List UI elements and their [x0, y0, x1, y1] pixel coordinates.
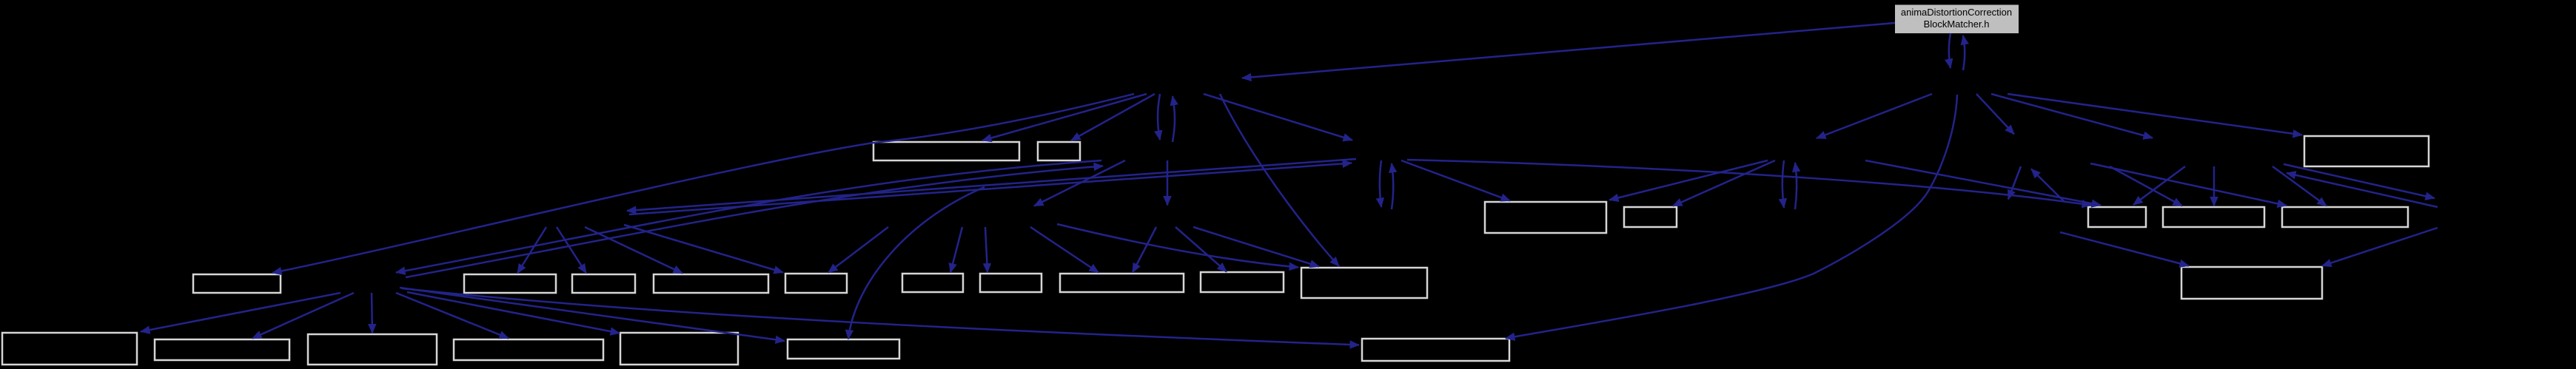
edge hub8 to G: [2090, 163, 2287, 206]
edge hubL3 to Y (curve): [848, 187, 985, 339]
edge hub3 to hub6: [1380, 160, 1381, 207]
node J3: [572, 274, 635, 293]
node J: [654, 274, 768, 293]
svg-text:BlockMatcher.h: BlockMatcher.h: [1924, 18, 1990, 30]
edge hub10 to U: [252, 293, 354, 339]
node H: [2304, 136, 2429, 166]
node B: [1038, 142, 1080, 160]
edge hub10 to hub2: [406, 166, 1103, 278]
node M: [980, 274, 1042, 292]
node K: [785, 274, 847, 293]
edge hub2 to hubL3: [1034, 160, 1125, 206]
node L: [902, 274, 963, 292]
edge hub10 to W: [396, 293, 509, 339]
edge hubM to O: [1175, 227, 1227, 272]
edge hub8 to F: [2213, 166, 2216, 206]
edge hub4 to hub7: [1976, 94, 2014, 135]
node U: [155, 339, 289, 360]
edge hub7 to hubR3r2: [2008, 166, 2021, 200]
node O: [1201, 272, 1284, 292]
node T: [2, 333, 137, 365]
edge hubM to P: [1193, 227, 1319, 267]
edge hub8 to E: [2133, 166, 2185, 205]
edge hubM to N: [1133, 227, 1156, 273]
edge hub4 to root: [1963, 35, 1965, 70]
edge hub5 to C: [1609, 160, 1768, 200]
edge hub8 to G (second): [2273, 166, 2327, 206]
edge hub10 to Z (long curve): [402, 288, 1359, 345]
edge hub1 to A: [982, 94, 1147, 141]
node V: [308, 334, 437, 365]
edge hub9 to J2: [517, 227, 546, 274]
edge hub4 to H: [2008, 94, 2302, 135]
edge hubR3r2 to S: [2060, 232, 2189, 266]
node E: [2088, 207, 2146, 227]
edge hub9 to J: [585, 227, 682, 274]
edge hub6 to hub3: [1392, 163, 1393, 209]
edge hubC2 to hub5: [1795, 163, 1797, 209]
node I: [193, 274, 281, 293]
edge hub10 to X: [407, 292, 620, 334]
edge hubL3 to K: [828, 227, 888, 273]
node J2: [464, 274, 556, 293]
edge hub3 to C: [1401, 160, 1510, 201]
edge hub2 to hub1: [1173, 96, 1175, 142]
edge hub5 to D: [1673, 160, 1775, 206]
edge hub1 to hub3: [1204, 94, 1352, 141]
node G: [2282, 207, 2408, 227]
edge hub7 to F: [2110, 166, 2182, 206]
node W: [454, 339, 603, 360]
node S: [2181, 267, 2322, 299]
edge hub4 to hub5: [1817, 94, 1932, 138]
edge hub3 to E (long): [1407, 160, 2091, 206]
node F: [2163, 207, 2264, 227]
node X: [620, 333, 738, 365]
edge hubR3rr to hub8: [2287, 173, 2438, 207]
node N: [1060, 274, 1184, 292]
edge hubL3 to M: [985, 227, 987, 273]
edge hub9 to K: [624, 225, 783, 273]
edge hub9 to J3: [557, 227, 586, 274]
edge hub2 to hubM: [1167, 160, 1169, 206]
edge root to hub1: [1242, 23, 1895, 78]
edge hubL3 to N: [1030, 227, 1099, 273]
edge hub3 to hub9: [627, 159, 1356, 211]
edge hubL3 to L: [950, 227, 962, 273]
edge hub2 to hub10: [396, 160, 1101, 273]
edge hubR3r2 to hub7: [2031, 169, 2064, 202]
edge hub10 to V: [372, 293, 372, 334]
edge hub4 to hub8: [1991, 94, 2153, 138]
edge hub10 to T: [141, 293, 341, 332]
node D: [1624, 207, 1677, 227]
node C: [1485, 202, 1606, 233]
root node animaDistortionCorrectionBlockMatcher.h: [1895, 5, 2019, 34]
edge hub5 to hubC2: [1782, 160, 1784, 208]
node Z: [1362, 339, 1509, 361]
node P: [1301, 268, 1427, 298]
edge hub9 to hub3: [629, 163, 1352, 215]
node Y: [788, 339, 899, 359]
edge root to hub4: [1949, 33, 1951, 68]
edge hub8 to hubR3rr: [2284, 164, 2435, 198]
edge hubR3rr to S: [2322, 228, 2438, 266]
edge hub10 to Y: [400, 288, 785, 341]
edge hubL3 to P (long): [1057, 224, 1298, 268]
edge hub1 to hub2: [1158, 94, 1160, 140]
svg-text:animaDistortionCorrection: animaDistortionCorrection: [1901, 7, 2012, 18]
node A: [873, 142, 1019, 160]
edge hub5 to E: [1865, 160, 2101, 206]
edge hub1 to I: [272, 94, 1134, 273]
edge hub4 to Z (long curve): [1506, 95, 1957, 339]
edge hub1 to P (curve): [1220, 94, 1339, 266]
edge hub1 to B: [1071, 94, 1155, 141]
